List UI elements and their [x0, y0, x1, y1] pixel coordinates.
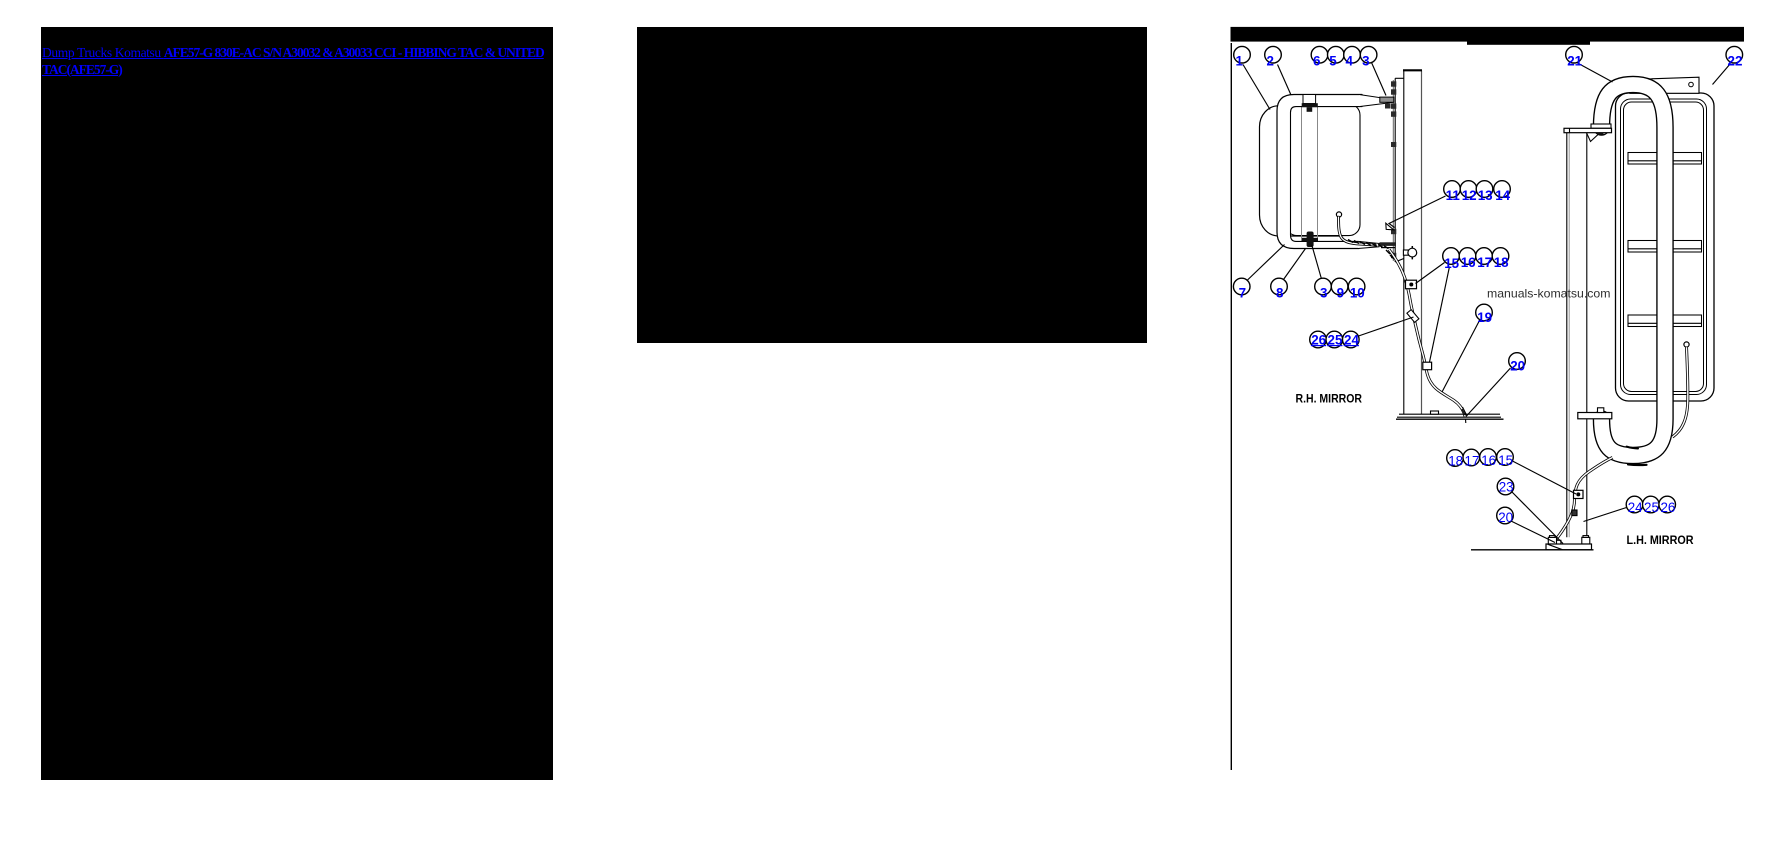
- top black bar lower extension: [1467, 41, 1590, 44]
- L.H. cable lower segment: [1554, 458, 1613, 543]
- callout balloon 5: [1328, 46, 1345, 68]
- leader line callout 7: [1248, 245, 1285, 281]
- callout balloon 16 left mirror: [1480, 449, 1497, 468]
- callout balloon 17: [1476, 248, 1493, 270]
- R.H. guard tube top taper: [1359, 95, 1393, 107]
- callout balloon 17 left mirror: [1463, 449, 1480, 468]
- svg-text:6: 6: [1313, 54, 1320, 69]
- leader line callout 8: [1284, 249, 1306, 280]
- mirror wire end ball: [1336, 212, 1341, 217]
- R.H. guard tube outer contour: [1277, 95, 1362, 249]
- svg-text:13: 13: [1478, 188, 1493, 203]
- R.H. ground line lower: [1396, 418, 1504, 420]
- plate bolt g lower: [1391, 253, 1396, 258]
- callout balloon 15 left mirror: [1497, 449, 1514, 468]
- svg-text:18: 18: [1494, 255, 1509, 270]
- plate bolt e: [1391, 142, 1396, 147]
- R.H. post right edge: [1421, 71, 1423, 415]
- svg-text:17: 17: [1477, 255, 1492, 270]
- callout balloon 16: [1459, 248, 1476, 270]
- svg-text:23: 23: [1499, 480, 1514, 495]
- callout balloon 26 left mirror: [1659, 496, 1676, 515]
- callout balloon 26 right mirror: [1310, 331, 1327, 348]
- plate bolt d: [1391, 111, 1396, 116]
- plate bolt f lower: [1391, 229, 1396, 234]
- L.H. bottom flange plate: [1578, 413, 1612, 419]
- L.H. base foot bolt right: [1583, 536, 1589, 538]
- R.H. mounting plate bottom end: [1395, 259, 1404, 263]
- callout balloon 3 top: [1360, 46, 1377, 68]
- svg-text:20: 20: [1510, 358, 1525, 373]
- cable sleeve item 24-26: [1407, 310, 1419, 323]
- svg-text:17: 17: [1465, 453, 1480, 468]
- R.H. harness cable white core: [1389, 250, 1465, 418]
- R.H. base plate top line: [1399, 413, 1500, 415]
- post clip bracket: [1403, 250, 1408, 255]
- svg-text:1: 1: [1235, 54, 1243, 69]
- svg-text:10: 10: [1350, 285, 1365, 300]
- left vertical border line of diagram: [1230, 43, 1232, 770]
- svg-text:manuals-komatsu.com: manuals-komatsu.com: [1487, 287, 1611, 301]
- L.H. crossbar 1: [1628, 153, 1702, 165]
- callout balloon 7: [1233, 278, 1250, 300]
- L.H. base plate diagonal: [1548, 544, 1563, 550]
- svg-text:19: 19: [1477, 310, 1492, 325]
- L.H. mirror glass frame: [1624, 102, 1704, 392]
- leader line callouts 24-26 right mirror: [1359, 317, 1414, 336]
- callout balloon 19: [1476, 304, 1493, 325]
- callout balloon 9: [1331, 278, 1348, 300]
- callout balloon 8: [1271, 278, 1288, 300]
- flange divider line: [1569, 128, 1571, 132]
- R.H. mounting plate top: [1395, 77, 1404, 79]
- callout balloon 18: [1492, 248, 1509, 270]
- pivot bolt nut: [1385, 103, 1391, 108]
- svg-text:3: 3: [1320, 285, 1327, 300]
- R.H. post top cap: [1403, 69, 1422, 71]
- flange gusset dark mark: [1598, 133, 1604, 135]
- L.H. top mounting bracket plate: [1630, 77, 1699, 93]
- L.H. cable base connector: [1552, 540, 1561, 546]
- svg-text:R.H. MIRROR: R.H. MIRROR: [1296, 391, 1363, 405]
- R.H. post left edge: [1403, 71, 1405, 415]
- svg-text:24: 24: [1628, 500, 1643, 515]
- flange gusset: [1587, 133, 1601, 142]
- R.H. guard tube white band mask: [1277, 95, 1362, 249]
- callout balloon 15: [1443, 248, 1460, 271]
- R.H. base foot pad: [1431, 411, 1439, 414]
- leader line callout 22: [1713, 64, 1731, 85]
- R.H. mirror mounting strip left edge: [1301, 97, 1303, 247]
- tube bend shadow mark lower: [1628, 463, 1647, 466]
- L.H. top flange upper plate: [1591, 124, 1611, 128]
- L.H. cable lower segment white core: [1554, 458, 1613, 543]
- svg-text:11: 11: [1446, 188, 1461, 203]
- L.H. crossbar 2: [1628, 241, 1702, 253]
- R.H. mounting plate inner gray line: [1392, 80, 1394, 261]
- L.H. mirror housing inner line: [1621, 99, 1707, 395]
- svg-text:20: 20: [1498, 510, 1513, 525]
- left black image box: [41, 27, 553, 780]
- leader line callouts 24-26 left mirror: [1584, 508, 1627, 522]
- top clamp bolt on strip: [1302, 95, 1318, 112]
- R.H. mounting plate left edge: [1394, 78, 1396, 262]
- svg-text:26: 26: [1660, 500, 1675, 515]
- lower cable clamp: [1423, 362, 1432, 370]
- callout balloon 12: [1460, 181, 1477, 203]
- R.H. mirror glass frame: [1286, 104, 1360, 236]
- svg-text:16: 16: [1461, 255, 1476, 270]
- top black bar: [1231, 27, 1745, 42]
- R.H. mirror mounting strip right edge: [1317, 97, 1319, 247]
- upper cable clamp dot: [1409, 283, 1413, 287]
- L.H. base foot pad left: [1548, 537, 1556, 544]
- leader line callouts 15-18 to lower clamp: [1430, 267, 1450, 363]
- svg-text:15: 15: [1444, 256, 1459, 271]
- leader line callout 21: [1578, 63, 1613, 82]
- callout balloon 3 lower: [1315, 278, 1332, 300]
- callout balloon 13: [1476, 181, 1493, 203]
- L.H. cable clamp dot: [1576, 492, 1580, 496]
- L.H. guard tube white core: [1602, 85, 1666, 456]
- middle black image box: [637, 27, 1148, 343]
- bottom clamp bolt on strip: [1302, 232, 1318, 248]
- callout balloon 22: [1726, 46, 1743, 68]
- leader line callouts 11-14: [1389, 196, 1446, 228]
- plate bolt c: [1391, 103, 1396, 108]
- L.H. post left inner gray line: [1568, 133, 1570, 538]
- bracket bolt hole: [1689, 82, 1694, 87]
- svg-text:2: 2: [1266, 54, 1273, 69]
- mirror wire curl white core: [1339, 217, 1376, 245]
- svg-text:12: 12: [1462, 188, 1477, 203]
- R.H. cable base connector: [1462, 407, 1467, 423]
- R.H. guard tube bottom taper: [1358, 241, 1379, 248]
- L.H. mirror cable end ball: [1684, 342, 1689, 347]
- lower arm bolt: [1380, 242, 1397, 246]
- svg-text:9: 9: [1337, 285, 1344, 300]
- leader line callouts 3-6: [1372, 63, 1387, 96]
- callout balloon 11: [1444, 181, 1461, 203]
- callout balloon 6: [1311, 46, 1328, 68]
- L.H. post left edge: [1566, 133, 1568, 538]
- callout balloon 1: [1234, 46, 1251, 68]
- svg-text:5: 5: [1329, 54, 1337, 69]
- post clip ring: [1408, 248, 1417, 257]
- svg-text:16: 16: [1481, 453, 1496, 468]
- callout balloon 24 left mirror: [1626, 496, 1643, 515]
- R.H. ground line upper: [1397, 416, 1501, 418]
- callout balloon 10: [1348, 278, 1365, 300]
- main pivot bolt: [1380, 97, 1394, 102]
- leader line callouts 15-18 to upper clamp: [1416, 263, 1445, 284]
- callout balloon 18 left mirror: [1447, 450, 1464, 469]
- plate bolt a: [1391, 81, 1396, 86]
- L.H. crossbar 3: [1628, 315, 1702, 327]
- svg-text:18: 18: [1448, 454, 1463, 469]
- callout balloon 20 right mirror: [1509, 353, 1526, 374]
- svg-text:4: 4: [1345, 54, 1353, 69]
- svg-text:15: 15: [1498, 453, 1513, 468]
- L.H. cable clamp item 15: [1574, 490, 1584, 498]
- L.H. cable upper segment: [1673, 347, 1688, 437]
- callout balloon 20 left mirror: [1497, 507, 1514, 525]
- callout balloon 4: [1344, 46, 1361, 68]
- L.H. base foot pad right: [1582, 537, 1590, 544]
- R.H. mirror back housing: [1260, 106, 1359, 236]
- svg-text:22: 22: [1728, 54, 1743, 69]
- leader line callouts 3,9,10: [1312, 245, 1322, 279]
- leader line callout 1: [1243, 65, 1270, 110]
- arm pivot bracket: [1386, 223, 1394, 230]
- callout balloon 2: [1265, 46, 1282, 68]
- svg-text:L.H. MIRROR: L.H. MIRROR: [1627, 533, 1694, 547]
- L.H. cable fitting item 23: [1572, 510, 1577, 516]
- L.H. base foot bolt left: [1550, 536, 1556, 538]
- svg-text:21: 21: [1567, 54, 1582, 69]
- mirror wire curl: [1339, 217, 1376, 245]
- callout balloon 24 right mirror: [1343, 331, 1360, 348]
- upper cable clamp item 15: [1406, 280, 1417, 289]
- leader line callout 20 left mirror: [1511, 521, 1555, 543]
- L.H. post right edge: [1586, 133, 1588, 538]
- leader line callout 20: [1466, 368, 1511, 417]
- callout balloon 23: [1497, 478, 1514, 495]
- svg-text:25: 25: [1644, 500, 1659, 515]
- svg-text:3: 3: [1362, 54, 1369, 69]
- leader line callout 2: [1278, 65, 1292, 96]
- L.H. ground line: [1471, 549, 1594, 551]
- L.H. guard tube outline: [1602, 85, 1666, 456]
- leader line callout 23: [1512, 492, 1563, 544]
- callout balloon 25 left mirror: [1643, 496, 1660, 515]
- callout balloon 25 right mirror: [1326, 331, 1343, 348]
- R.H. harness cable: [1389, 250, 1465, 418]
- svg-text:8: 8: [1276, 285, 1284, 300]
- svg-text:7: 7: [1239, 285, 1246, 300]
- L.H. top flange main plate: [1564, 128, 1612, 132]
- L.H. base plate: [1546, 544, 1592, 550]
- braided wire section: [1348, 240, 1394, 260]
- svg-text:14: 14: [1495, 188, 1510, 203]
- L.H. mirror housing outer shell: [1616, 93, 1715, 401]
- bottom flange bolt: [1598, 408, 1604, 413]
- L.H. cable upper segment white core: [1673, 347, 1688, 437]
- plate bolt b: [1391, 89, 1396, 94]
- leader line callout 19: [1442, 320, 1480, 393]
- callout balloon 21: [1566, 46, 1583, 68]
- blue hyperlink title text: [42, 45, 549, 79]
- tube bend shadow mark upper: [1627, 447, 1638, 449]
- leader line callouts 15-18 left mirror: [1512, 461, 1577, 495]
- callout balloon 14: [1494, 181, 1511, 203]
- R.H. guard tube inner contour: [1291, 107, 1363, 242]
